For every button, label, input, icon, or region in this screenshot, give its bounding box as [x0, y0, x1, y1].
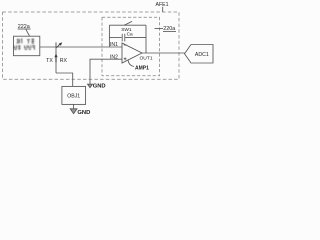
leader line from 220a to inner box [155, 28, 164, 30]
wire: L-bend to OBJ1 [56, 73, 73, 86]
svg-text:GND: GND [93, 84, 106, 90]
output wire to ADC1 [142, 52, 185, 54]
underline of 222a [18, 28, 31, 30]
capacitor Ca plates [121, 34, 123, 42]
svg-text:OBJ1: OBJ1 [67, 93, 80, 99]
leader tick from AFE1 to outer box [162, 7, 164, 12]
label AMP1 [135, 65, 149, 71]
svg-text:IN2: IN2 [110, 55, 118, 61]
leader arc from AMP1 to triangle [128, 60, 134, 67]
korean text line2 (신호 생성기) [14, 45, 34, 49]
ADC1 pentagon block [185, 45, 214, 64]
label OUT1 [140, 55, 153, 61]
arrow up on RX path [54, 53, 57, 57]
svg-text:Ca: Ca [127, 32, 133, 38]
svg-text:AFE1: AFE1 [156, 2, 169, 8]
minus sign [124, 44, 127, 46]
node: electrode tap with diagonal arrow [55, 42, 57, 47]
svg-text:GND: GND [77, 110, 90, 116]
wire IN2 to ground [90, 59, 122, 84]
label GND [77, 110, 90, 116]
label TX [46, 58, 53, 64]
wire: node down to L-bend (RX path) [55, 47, 57, 73]
label IN1 [110, 42, 118, 48]
underline of 220a [163, 30, 176, 32]
label SW1 [121, 27, 132, 33]
wire: OBJ1 to ground [73, 104, 75, 108]
svg-text:OUT1: OUT1 [140, 55, 153, 61]
svg-text:IN1: IN1 [110, 42, 118, 48]
label 220a [163, 26, 175, 32]
box: first driving signal generator [14, 36, 40, 56]
ground symbol at IN2 [88, 84, 93, 88]
wire: generator output to amplifier input [40, 46, 122, 48]
feedback loop right vertical [145, 25, 147, 53]
inner dashed box 220a [102, 17, 160, 76]
box OBJ1 [62, 86, 86, 104]
label AFE1 [156, 2, 169, 8]
svg-text:ADC1: ADC1 [195, 52, 209, 58]
label IN2 [110, 55, 118, 61]
plus sign [124, 58, 127, 60]
feedback loop left vertical [108, 25, 110, 47]
outer dashed box AFE1 [3, 12, 180, 79]
label 222a above generator box [18, 24, 30, 30]
ground symbol below OBJ1 [70, 109, 77, 114]
switch SW1 lever [124, 21, 132, 25]
feedback capacitor branch [109, 37, 121, 39]
leader line from 222a to box [26, 29, 30, 36]
svg-text:TX: TX [46, 58, 53, 64]
svg-text:RX: RX [60, 58, 68, 64]
label GND [93, 84, 106, 90]
feedback switch branch [109, 24, 146, 26]
korean text line1 (제1 구동) [17, 39, 35, 44]
op-amp AMP1 triangle [122, 43, 142, 63]
label RX [60, 58, 68, 64]
label Ca [127, 32, 133, 38]
svg-text:AMP1: AMP1 [135, 65, 149, 71]
